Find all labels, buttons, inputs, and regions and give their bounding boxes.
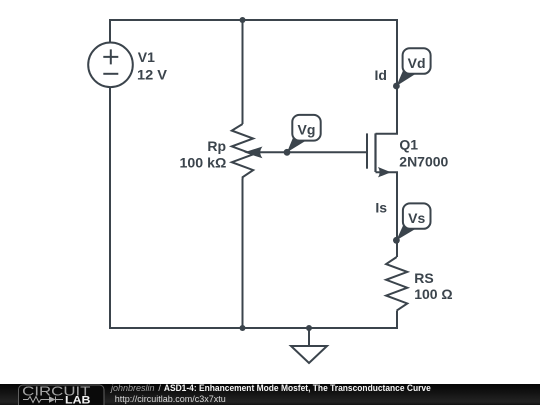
svg-text:100 Ω: 100 Ω bbox=[414, 286, 452, 302]
svg-text:Is: Is bbox=[375, 200, 387, 216]
svg-text:ASD1-4: Enhancement Mode Mosfe: ASD1-4: Enhancement Mode Mosfet, The Tra… bbox=[164, 383, 431, 393]
svg-text:100 kΩ: 100 kΩ bbox=[180, 154, 227, 170]
svg-text:Vs: Vs bbox=[408, 210, 425, 226]
svg-text:http://circuitlab.com/c3x7xtu: http://circuitlab.com/c3x7xtu bbox=[115, 394, 226, 404]
svg-text:johnbreslin: johnbreslin bbox=[110, 383, 155, 393]
svg-text:Vd: Vd bbox=[408, 55, 426, 71]
svg-text:Id: Id bbox=[375, 67, 387, 83]
svg-text:Q1: Q1 bbox=[399, 137, 418, 153]
svg-text:Vg: Vg bbox=[298, 122, 316, 138]
svg-text:12 V: 12 V bbox=[137, 66, 168, 82]
svg-text:Rp: Rp bbox=[207, 138, 226, 154]
svg-text:LAB: LAB bbox=[65, 394, 91, 405]
svg-text:2N7000: 2N7000 bbox=[399, 154, 448, 170]
svg-text:RS: RS bbox=[414, 270, 433, 286]
svg-text:V1: V1 bbox=[138, 49, 155, 65]
